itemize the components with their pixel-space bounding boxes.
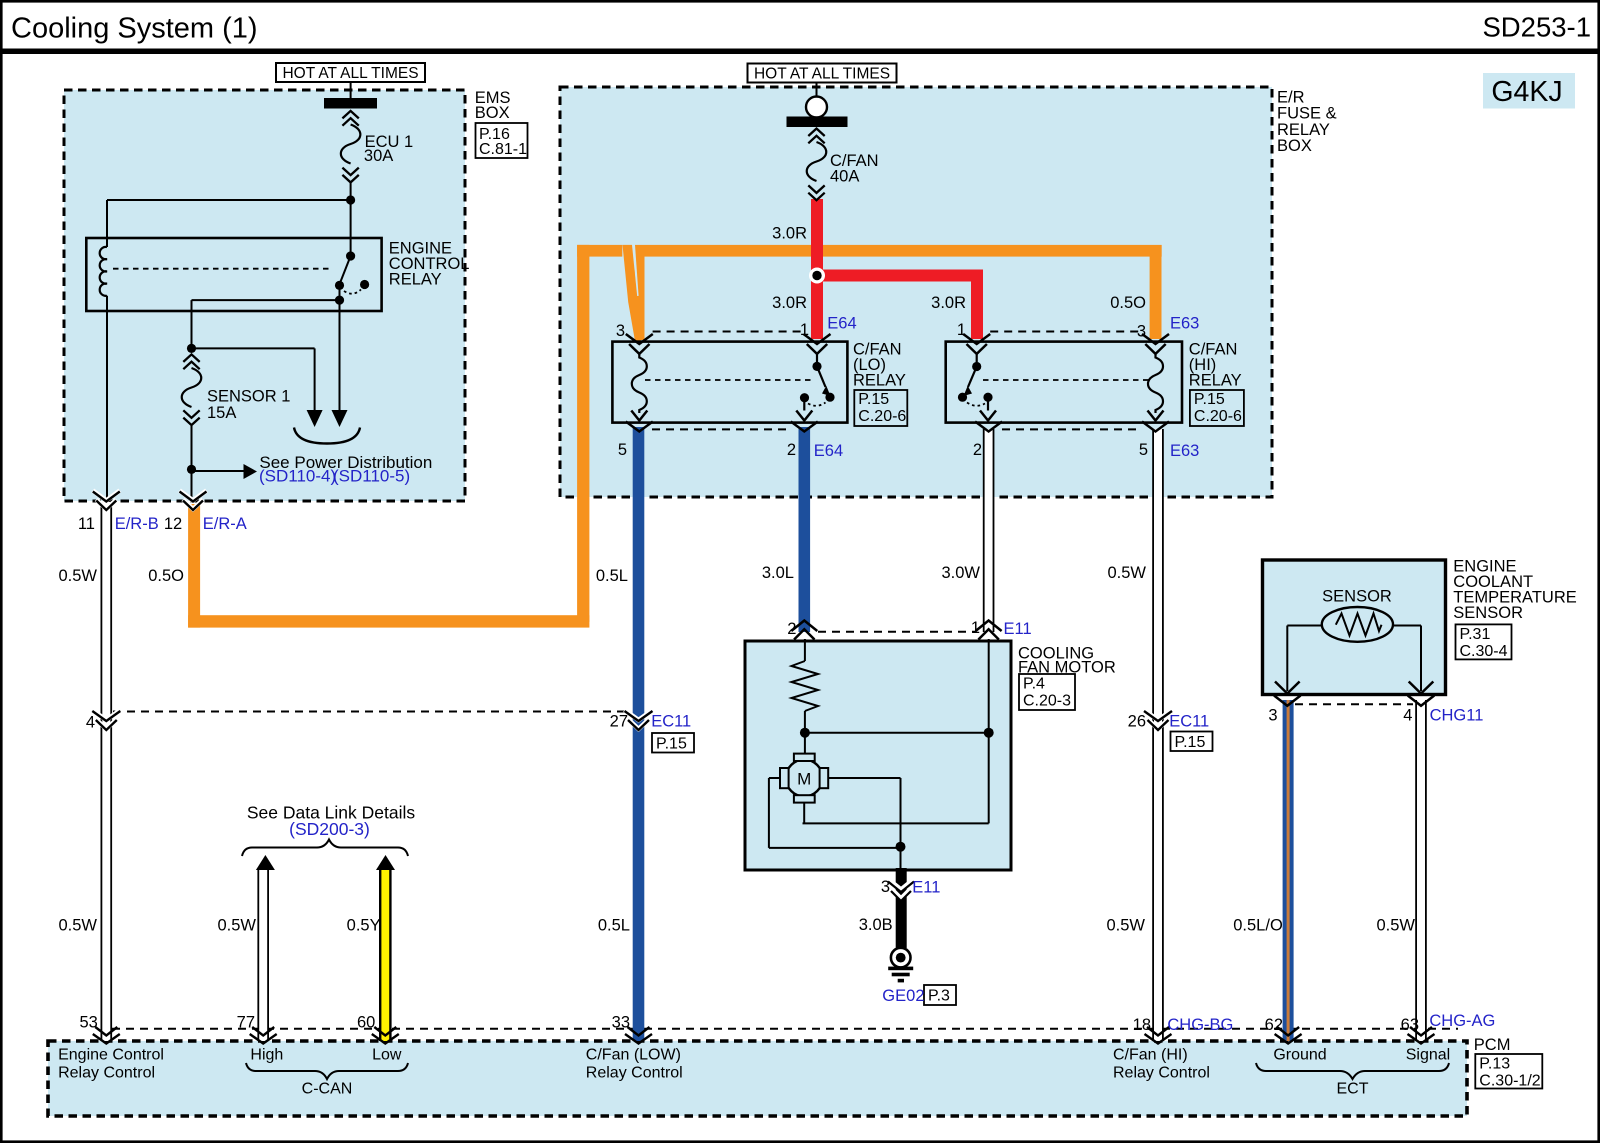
svg-text:HOT AT ALL TIMES: HOT AT ALL TIMES bbox=[282, 65, 418, 82]
svg-text:15A: 15A bbox=[207, 404, 236, 422]
svg-text:4: 4 bbox=[86, 714, 95, 732]
svg-text:GE02: GE02 bbox=[882, 987, 924, 1005]
svg-text:G4KJ: G4KJ bbox=[1491, 76, 1562, 108]
svg-text:12: 12 bbox=[164, 515, 182, 533]
svg-text:CHG-BG: CHG-BG bbox=[1167, 1016, 1233, 1034]
svg-text:2: 2 bbox=[787, 620, 796, 638]
svg-text:E/R-A: E/R-A bbox=[203, 515, 247, 533]
svg-text:C.20-6: C.20-6 bbox=[858, 408, 906, 425]
svg-text:0.5L/O: 0.5L/O bbox=[1233, 917, 1283, 935]
svg-text:(SD200-3): (SD200-3) bbox=[289, 819, 370, 839]
svg-text:P.15: P.15 bbox=[1194, 391, 1225, 408]
svg-text:CHG-AG: CHG-AG bbox=[1429, 1012, 1495, 1030]
svg-text:E63: E63 bbox=[1170, 442, 1199, 460]
svg-text:3.0R: 3.0R bbox=[772, 294, 807, 312]
svg-text:2: 2 bbox=[787, 441, 796, 459]
svg-text:SENSOR: SENSOR bbox=[1322, 588, 1392, 606]
svg-text:5: 5 bbox=[1139, 441, 1148, 459]
svg-text:RELAY: RELAY bbox=[1189, 372, 1242, 390]
svg-text:62: 62 bbox=[1265, 1016, 1283, 1034]
svg-text:3: 3 bbox=[1137, 323, 1146, 341]
svg-text:Signal: Signal bbox=[1406, 1046, 1450, 1063]
svg-text:CHG11: CHG11 bbox=[1430, 706, 1484, 724]
svg-text:BOX: BOX bbox=[475, 104, 510, 122]
svg-text:27: 27 bbox=[610, 712, 628, 730]
svg-text:3: 3 bbox=[616, 322, 625, 340]
svg-text:C.81-1: C.81-1 bbox=[479, 141, 527, 158]
svg-text:0.5W: 0.5W bbox=[1106, 917, 1145, 935]
svg-text:0.5Y: 0.5Y bbox=[347, 917, 381, 935]
svg-text:77: 77 bbox=[237, 1014, 255, 1032]
svg-text:P.15: P.15 bbox=[656, 736, 687, 753]
svg-text:26: 26 bbox=[1128, 712, 1146, 730]
svg-text:C.30-4: C.30-4 bbox=[1460, 643, 1508, 660]
svg-text:0.5O: 0.5O bbox=[148, 567, 184, 585]
svg-text:Cooling System (1): Cooling System (1) bbox=[11, 13, 258, 45]
svg-text:EC11: EC11 bbox=[1169, 712, 1209, 730]
svg-text:ECT: ECT bbox=[1337, 1081, 1369, 1098]
svg-text:3.0R: 3.0R bbox=[931, 294, 966, 312]
svg-text:53: 53 bbox=[79, 1014, 97, 1032]
svg-text:18: 18 bbox=[1133, 1016, 1151, 1034]
svg-text:33: 33 bbox=[612, 1014, 630, 1032]
svg-text:E64: E64 bbox=[814, 442, 843, 460]
svg-text:3.0B: 3.0B bbox=[859, 916, 893, 934]
svg-text:30A: 30A bbox=[364, 147, 393, 165]
svg-text:E11: E11 bbox=[912, 879, 940, 897]
svg-text:Low: Low bbox=[372, 1046, 402, 1063]
svg-text:E64: E64 bbox=[827, 315, 856, 333]
svg-text:Relay Control: Relay Control bbox=[1113, 1064, 1210, 1081]
svg-text:E11: E11 bbox=[1004, 620, 1032, 638]
svg-text:2: 2 bbox=[973, 441, 982, 459]
svg-text:Relay Control: Relay Control bbox=[586, 1064, 683, 1081]
svg-text:EC11: EC11 bbox=[651, 712, 691, 730]
svg-text:P.3: P.3 bbox=[928, 988, 950, 1005]
svg-text:(SD110-5): (SD110-5) bbox=[333, 467, 410, 486]
svg-text:HOT AT ALL TIMES: HOT AT ALL TIMES bbox=[754, 65, 890, 82]
svg-text:FAN MOTOR: FAN MOTOR bbox=[1018, 659, 1116, 677]
svg-text:0.5W: 0.5W bbox=[1107, 564, 1146, 582]
svg-text:63: 63 bbox=[1401, 1016, 1419, 1034]
svg-text:SENSOR: SENSOR bbox=[1453, 604, 1523, 622]
svg-text:3.0R: 3.0R bbox=[772, 225, 807, 243]
svg-text:4: 4 bbox=[1403, 706, 1412, 724]
svg-text:0.5L: 0.5L bbox=[596, 567, 628, 585]
svg-text:PCM: PCM bbox=[1474, 1036, 1511, 1054]
svg-text:C/Fan (HI): C/Fan (HI) bbox=[1113, 1046, 1188, 1063]
svg-text:0.5L: 0.5L bbox=[598, 917, 630, 935]
svg-text:FUSE &: FUSE & bbox=[1277, 105, 1337, 123]
svg-text:P.15: P.15 bbox=[1175, 734, 1206, 751]
svg-text:0.5W: 0.5W bbox=[1376, 917, 1415, 935]
svg-text:3.0L: 3.0L bbox=[762, 564, 794, 582]
svg-text:P.31: P.31 bbox=[1460, 626, 1491, 643]
svg-text:BOX: BOX bbox=[1277, 137, 1312, 155]
svg-text:40A: 40A bbox=[830, 168, 859, 186]
svg-text:1: 1 bbox=[957, 321, 966, 339]
svg-text:0.5O: 0.5O bbox=[1110, 294, 1146, 312]
svg-text:E/R-B: E/R-B bbox=[115, 515, 159, 533]
svg-text:M: M bbox=[797, 769, 811, 788]
svg-text:0.5W: 0.5W bbox=[58, 567, 97, 585]
svg-text:C.20-6: C.20-6 bbox=[1194, 408, 1242, 425]
svg-text:P.13: P.13 bbox=[1479, 1056, 1510, 1073]
svg-text:E63: E63 bbox=[1170, 315, 1199, 333]
svg-text:3: 3 bbox=[1268, 706, 1277, 724]
svg-text:Relay Control: Relay Control bbox=[58, 1064, 155, 1081]
svg-text:RELAY: RELAY bbox=[853, 372, 906, 390]
svg-text:(SD110-4): (SD110-4) bbox=[259, 467, 336, 486]
svg-text:3.0W: 3.0W bbox=[941, 564, 980, 582]
svg-text:0.5W: 0.5W bbox=[58, 917, 97, 935]
svg-text:5: 5 bbox=[618, 441, 627, 459]
svg-text:11: 11 bbox=[78, 515, 95, 533]
svg-text:SD253-1: SD253-1 bbox=[1482, 12, 1591, 43]
svg-text:P.15: P.15 bbox=[858, 391, 889, 408]
svg-text:C-CAN: C-CAN bbox=[302, 1081, 353, 1098]
svg-text:1: 1 bbox=[800, 321, 809, 339]
svg-text:High: High bbox=[250, 1046, 283, 1063]
svg-text:60: 60 bbox=[357, 1014, 375, 1032]
svg-text:0.5W: 0.5W bbox=[217, 917, 256, 935]
svg-text:3: 3 bbox=[881, 878, 890, 896]
svg-text:C.30-1/2: C.30-1/2 bbox=[1479, 1073, 1540, 1090]
svg-text:1: 1 bbox=[971, 619, 980, 637]
svg-text:P.4: P.4 bbox=[1023, 676, 1045, 693]
svg-text:RELAY: RELAY bbox=[389, 270, 442, 288]
svg-text:C.20-3: C.20-3 bbox=[1023, 693, 1071, 710]
svg-text:Ground: Ground bbox=[1273, 1046, 1326, 1063]
svg-text:C/Fan (LOW): C/Fan (LOW) bbox=[586, 1046, 681, 1063]
svg-text:Engine Control: Engine Control bbox=[58, 1046, 164, 1063]
